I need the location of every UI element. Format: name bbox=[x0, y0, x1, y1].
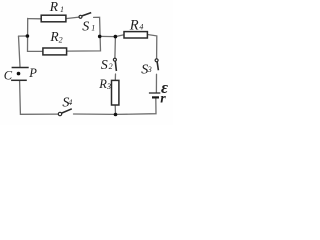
node P dot inside capacitor bbox=[17, 72, 21, 76]
svg-text:C: C bbox=[4, 69, 13, 83]
junction dot node B bbox=[114, 35, 118, 39]
svg-text:S: S bbox=[101, 58, 108, 73]
svg-text:2: 2 bbox=[109, 62, 113, 71]
resistor R4 bbox=[124, 32, 147, 38]
svg-text:3: 3 bbox=[106, 82, 111, 91]
wire left junction vertical bbox=[27, 18, 29, 51]
svg-text:R: R bbox=[98, 77, 107, 91]
wire R3 node to bottom-right corner up to battery bbox=[116, 98, 157, 114]
wire node B to R4 bbox=[115, 35, 124, 37]
svg-text:R: R bbox=[49, 0, 59, 14]
wire S2 blade to R3 bbox=[114, 74, 116, 80]
resistor R1 bbox=[41, 15, 66, 22]
svg-text:R: R bbox=[129, 18, 139, 34]
wire R1 right to S1 bbox=[66, 17, 79, 19]
svg-text:1: 1 bbox=[91, 23, 95, 32]
svg-text:P: P bbox=[28, 66, 37, 80]
junction dot R3 bottom bbox=[114, 113, 118, 117]
battery short thick plate bbox=[152, 96, 159, 98]
wire R3 bottom stub bbox=[114, 105, 116, 114]
wire jog node D1 to left rail bbox=[19, 35, 28, 37]
wire left rail down to capacitor bbox=[19, 36, 21, 67]
svg-text:4: 4 bbox=[68, 98, 72, 107]
switch S4 bbox=[58, 109, 72, 116]
junction dot node A bbox=[98, 35, 102, 39]
svg-text:4: 4 bbox=[139, 23, 143, 32]
wire S1 to right corner and down to node A bbox=[67, 17, 101, 51]
switch S3 bbox=[155, 59, 158, 71]
wire R2 left stub bbox=[28, 50, 43, 52]
svg-text:1: 1 bbox=[60, 5, 64, 14]
wire R4 right to top-right corner down to S3 bbox=[147, 35, 156, 59]
switch S2 bbox=[113, 58, 116, 71]
wire S2 drop from node B bbox=[114, 37, 117, 59]
capacitor C bottom plate bbox=[11, 79, 27, 81]
svg-text:3: 3 bbox=[147, 65, 152, 74]
svg-text:2: 2 bbox=[59, 36, 63, 45]
svg-text:r: r bbox=[160, 92, 166, 107]
resistor R2 bbox=[43, 48, 67, 55]
switch S1 bbox=[79, 13, 91, 19]
wire battery to S3 blade bbox=[155, 74, 157, 92]
junction dot D1 left bbox=[26, 34, 30, 38]
wire top-left stub to R1 bbox=[28, 18, 42, 20]
wire node A to node B branch bbox=[100, 35, 116, 37]
svg-text:S: S bbox=[82, 19, 89, 34]
capacitor C top plate bbox=[12, 67, 29, 69]
wire capacitor to bottom-left corner bbox=[20, 81, 59, 114]
battery long plate bbox=[149, 92, 160, 94]
wire S4 right to R3 node bbox=[74, 113, 116, 115]
resistor R3 vertical bbox=[112, 80, 119, 105]
